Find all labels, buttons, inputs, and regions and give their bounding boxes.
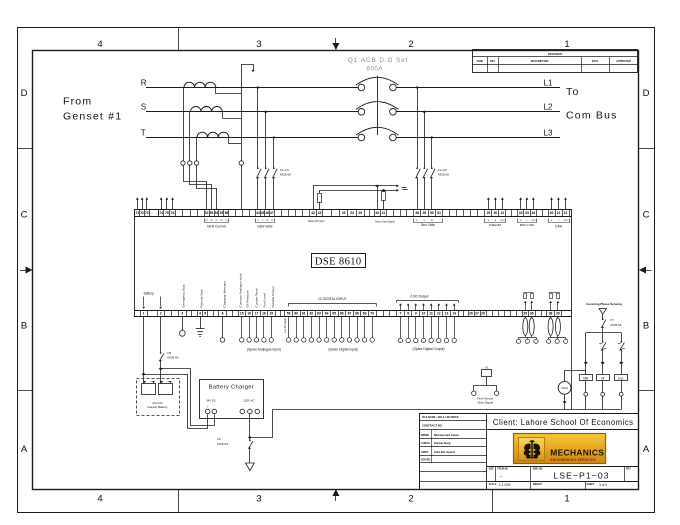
- svg-text:4: 4: [97, 39, 102, 50]
- svg-text:-: -: [214, 406, 215, 409]
- svg-text:46: 46: [265, 211, 269, 215]
- svg-text:SCR: SCR: [531, 220, 536, 222]
- svg-text:45: 45: [261, 211, 265, 215]
- svg-text:19: 19: [269, 312, 273, 316]
- svg-text:SCR: SCR: [500, 220, 505, 222]
- svg-text:Muhammad Awais: Muhammad Awais: [434, 433, 459, 437]
- svg-text:L2: L2: [544, 103, 553, 112]
- svg-text:REV: REV: [490, 60, 495, 63]
- svg-text:D: D: [643, 88, 650, 99]
- svg-text:Mains DC Input: Mains DC Input: [308, 220, 325, 223]
- svg-text:D: D: [21, 88, 28, 99]
- svg-text:(Spare Digital Output): (Spare Digital Output): [413, 347, 445, 351]
- svg-text:DSENET: DSENET: [489, 223, 502, 227]
- svg-text:(+ve DC Input): (+ve DC Input): [284, 318, 287, 333]
- svg-text:S2: S2: [220, 220, 222, 222]
- svg-text:42: 42: [311, 211, 315, 215]
- svg-text:Incoming Phase Sensing: Incoming Phase Sensing: [586, 302, 622, 306]
- svg-text:35: 35: [523, 312, 527, 316]
- svg-text:S2: S2: [210, 220, 212, 222]
- svg-text:T: T: [141, 128, 146, 137]
- svg-text:65: 65: [332, 312, 336, 316]
- svg-text:17: 17: [255, 312, 259, 316]
- svg-text:1: 1: [143, 312, 145, 316]
- svg-text:FSCM NO: FSCM NO: [498, 468, 509, 470]
- svg-text:Remote Start: Remote Start: [200, 289, 204, 307]
- svg-text:SHEET: SHEET: [587, 484, 595, 486]
- svg-text:7: 7: [400, 312, 402, 316]
- svg-text:M11: M11: [618, 376, 624, 380]
- svg-text:L1: L1: [544, 78, 553, 87]
- svg-text:68: 68: [355, 312, 359, 316]
- svg-text:Emergency Stop: Emergency Stop: [182, 284, 186, 307]
- svg-text:S1: S1: [225, 220, 227, 222]
- svg-text:K1: K1: [485, 365, 489, 369]
- svg-text:67: 67: [348, 312, 352, 316]
- svg-text:25: 25: [358, 211, 362, 215]
- svg-text:B: B: [643, 321, 649, 332]
- svg-text:MSC LINK: MSC LINK: [520, 223, 536, 227]
- svg-text:27: 27: [475, 312, 479, 316]
- svg-text:33: 33: [525, 211, 529, 215]
- svg-text:12: 12: [437, 312, 441, 316]
- svg-text:SIZE: SIZE: [489, 468, 495, 470]
- svg-text:(Spare Analogue Input): (Spare Analogue Input): [247, 347, 281, 351]
- svg-text:12 DIGITAL INPUT: 12 DIGITAL INPUT: [318, 297, 347, 301]
- svg-text:26: 26: [469, 312, 473, 316]
- svg-text:22: 22: [564, 211, 568, 215]
- svg-text:Mains Start Signal: Mains Start Signal: [375, 221, 395, 224]
- svg-text:5: 5: [204, 312, 206, 316]
- svg-text:10: 10: [422, 312, 426, 316]
- svg-text:3F: 3F: [601, 376, 605, 380]
- svg-text:Oil Pressure: Oil Pressure: [246, 290, 250, 307]
- svg-text:69: 69: [363, 312, 367, 316]
- svg-text:64: 64: [325, 312, 329, 316]
- svg-text:Start Signal: Start Signal: [477, 400, 493, 404]
- svg-text:56: 56: [225, 211, 229, 215]
- svg-text:31: 31: [501, 211, 505, 215]
- svg-text:A: A: [643, 444, 650, 455]
- svg-text:MCB 6A: MCB 6A: [168, 356, 179, 360]
- svg-text:52: 52: [205, 211, 209, 215]
- svg-text:ZONE: ZONE: [476, 60, 483, 63]
- svg-text:24V DC: 24V DC: [206, 398, 216, 402]
- svg-text:To: To: [566, 86, 580, 98]
- svg-text:54: 54: [215, 211, 219, 215]
- svg-text:1: 1: [564, 39, 569, 50]
- svg-text:Q1:ACB D.G Set: Q1:ACB D.G Set: [348, 57, 409, 64]
- svg-text:C: C: [643, 210, 650, 221]
- svg-text:2: 2: [160, 312, 162, 316]
- svg-text:59: 59: [287, 312, 291, 316]
- svg-text:47: 47: [270, 211, 274, 215]
- svg-text:CAN: CAN: [555, 224, 563, 228]
- svg-text:76: 76: [171, 211, 175, 215]
- svg-text:WEIGHT: WEIGHT: [533, 484, 543, 486]
- svg-text:1: 1: [564, 494, 569, 505]
- svg-text:6: 6: [222, 312, 224, 316]
- svg-text:28: 28: [481, 312, 485, 316]
- svg-text:From: From: [63, 96, 92, 108]
- svg-text:Zarwar Baig: Zarwar Baig: [434, 441, 451, 445]
- svg-text:Common Analogue Input: Common Analogue Input: [238, 273, 242, 307]
- svg-text:32: 32: [519, 211, 523, 215]
- svg-text:GEN Volts: GEN Volts: [257, 224, 273, 228]
- svg-text:73: 73: [145, 211, 149, 215]
- svg-text:LSE−P1−03: LSE−P1−03: [553, 470, 609, 480]
- svg-text:Fuel Level: Fuel Level: [263, 293, 267, 308]
- svg-text:APPROVED: APPROVED: [616, 59, 631, 63]
- svg-text:2: 2: [408, 494, 413, 505]
- svg-text:CHECK: CHECK: [421, 442, 430, 445]
- svg-text:MR: MR: [583, 376, 589, 380]
- svg-text:3: 3: [256, 39, 261, 50]
- svg-text:Com Bus: Com Bus: [566, 110, 618, 122]
- svg-text:15: 15: [240, 312, 244, 316]
- svg-text:16: 16: [247, 312, 251, 316]
- svg-text:Battery Charger: Battery Charger: [209, 385, 254, 391]
- svg-text:55: 55: [220, 211, 224, 215]
- svg-text:61: 61: [302, 312, 306, 316]
- svg-text:C: C: [21, 210, 28, 221]
- svg-text:66: 66: [340, 312, 344, 316]
- svg-text:34: 34: [531, 211, 535, 215]
- svg-text:CONTRACT NO: CONTRACT NO: [422, 424, 442, 428]
- svg-text:F4–F6: F4–F6: [438, 168, 447, 172]
- svg-text:DWG NO: DWG NO: [533, 468, 543, 470]
- svg-text:Client: Lahore School Of E: Client: Lahore School Of Economics: [493, 418, 634, 427]
- svg-text:L3: L3: [544, 128, 553, 137]
- svg-text:48: 48: [415, 211, 419, 215]
- svg-text:9: 9: [415, 312, 417, 316]
- svg-text:3 of 9: 3 of 9: [599, 483, 607, 487]
- svg-text:SCALE: SCALE: [489, 483, 497, 486]
- svg-text:71: 71: [135, 211, 139, 215]
- svg-text:40: 40: [375, 211, 379, 215]
- svg-text:(Spare Digital Input): (Spare Digital Input): [328, 347, 357, 351]
- svg-text:S1: S1: [205, 220, 207, 222]
- svg-text:MCB 6A: MCB 6A: [611, 323, 622, 327]
- svg-text:11: 11: [429, 312, 433, 316]
- svg-text:B: B: [21, 321, 27, 332]
- svg-text:MECHANICS: MECHANICS: [550, 447, 604, 457]
- svg-text:51: 51: [437, 211, 441, 215]
- svg-text:S: S: [141, 103, 146, 112]
- svg-text:23: 23: [342, 211, 346, 215]
- svg-text:R: R: [141, 78, 147, 87]
- svg-text:SCR: SCR: [563, 220, 568, 222]
- svg-text:75: 75: [165, 211, 169, 215]
- svg-text:DSE 8610: DSE 8610: [315, 256, 362, 267]
- svg-text:REV: REV: [626, 468, 631, 470]
- svg-text:39: 39: [556, 312, 560, 316]
- svg-text:70: 70: [370, 312, 374, 316]
- svg-text:1:1.039: 1:1.039: [499, 483, 511, 487]
- svg-text:Genset Battery: Genset Battery: [147, 405, 168, 409]
- svg-text:Zaid Bin Saeed: Zaid Bin Saeed: [434, 450, 455, 454]
- svg-text:2: 2: [408, 39, 413, 50]
- svg-text:GEN Current: GEN Current: [207, 224, 226, 228]
- svg-text:DRWN: DRWN: [421, 434, 429, 437]
- svg-text:800A: 800A: [367, 66, 384, 73]
- svg-text:Genset #1: Genset #1: [63, 111, 122, 123]
- svg-text:8: 8: [407, 312, 409, 316]
- svg-text:MCB 6A: MCB 6A: [217, 442, 228, 446]
- svg-text:MCB 6A: MCB 6A: [280, 173, 291, 177]
- svg-text:49: 49: [423, 211, 427, 215]
- svg-text:60: 60: [294, 312, 298, 316]
- svg-text:74: 74: [159, 211, 163, 215]
- svg-text:29: 29: [487, 211, 491, 215]
- svg-text:Coolant Temp: Coolant Temp: [254, 288, 258, 307]
- svg-text:13: 13: [445, 312, 449, 316]
- svg-text:4: 4: [199, 312, 201, 316]
- svg-text:ENGINEERING SERVICES: ENGINEERING SERVICES: [550, 458, 596, 462]
- svg-text:24: 24: [350, 211, 354, 215]
- svg-text:Flexible Sensor: Flexible Sensor: [271, 286, 275, 307]
- svg-text:41: 41: [382, 211, 386, 215]
- svg-text:ISSUED: ISSUED: [421, 458, 431, 461]
- svg-text:MCB 6A: MCB 6A: [438, 173, 449, 177]
- svg-text:Battery: Battery: [144, 292, 155, 296]
- svg-text:220V AC: 220V AC: [243, 398, 254, 402]
- svg-text:F9: F9: [217, 437, 221, 441]
- svg-text:43: 43: [318, 211, 322, 215]
- svg-text:Charging Alternator: Charging Alternator: [223, 281, 227, 308]
- svg-text:4: 4: [97, 494, 102, 505]
- svg-text:REVISIONS: REVISIONS: [548, 52, 562, 56]
- svg-text:44: 44: [256, 211, 260, 215]
- svg-text:72: 72: [140, 211, 144, 215]
- svg-text:Bus Volts: Bus Volts: [421, 223, 435, 227]
- svg-text:3: 3: [181, 312, 183, 316]
- svg-text:APPR.: APPR.: [421, 451, 429, 454]
- svg-text:F1–F3: F1–F3: [280, 168, 289, 172]
- svg-text:3: 3: [256, 494, 261, 505]
- svg-text:62: 62: [310, 312, 314, 316]
- svg-text:36: 36: [530, 312, 534, 316]
- svg-text:21: 21: [557, 211, 561, 215]
- svg-text:63: 63: [317, 312, 321, 316]
- svg-text:18: 18: [262, 312, 266, 316]
- svg-text:DESCRIPTION: DESCRIPTION: [531, 59, 549, 63]
- svg-text:20: 20: [550, 211, 554, 215]
- svg-text:30: 30: [494, 211, 498, 215]
- svg-text:DATE: DATE: [592, 60, 599, 63]
- svg-text:S1: S1: [215, 220, 217, 222]
- svg-text:38: 38: [549, 312, 553, 316]
- svg-text:A: A: [21, 444, 28, 455]
- svg-text:MCH: MCH: [561, 386, 567, 390]
- svg-text:F7: F7: [611, 318, 615, 322]
- svg-text:14: 14: [452, 312, 456, 316]
- svg-text:F8: F8: [168, 351, 172, 355]
- svg-text:FILE NAME : WD & LSE DWGS: FILE NAME : WD & LSE DWGS: [422, 416, 459, 419]
- svg-text:53: 53: [210, 211, 214, 215]
- svg-text:50: 50: [430, 211, 434, 215]
- svg-text:6 DO Output: 6 DO Output: [410, 295, 428, 299]
